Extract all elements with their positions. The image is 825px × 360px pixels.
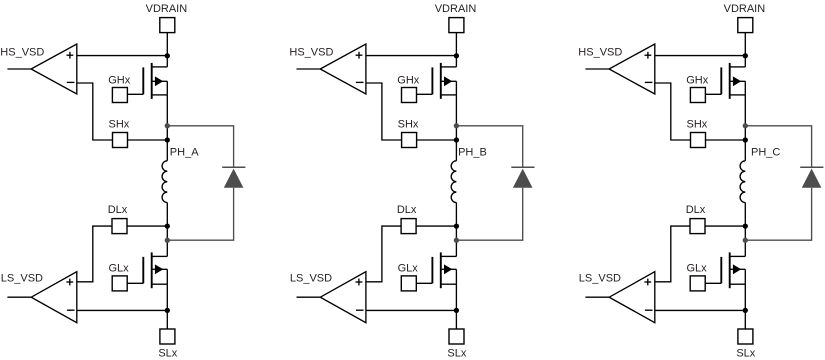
terminal VDRAIN (phase B)	[449, 18, 464, 33]
wire HS_VSD - input to SHx net	[77, 83, 113, 140]
op-amp HS_VSD comparator (phase C)	[609, 44, 655, 94]
transistor: low-side NMOS (phase A)	[143, 252, 167, 288]
wire SL node to SLx terminal	[166, 310, 168, 329]
wire GHx to high-side gate	[705, 93, 721, 95]
wire HS_VSD output	[585, 68, 609, 70]
svg-text:SHx: SHx	[398, 118, 419, 130]
wire VDRAIN terminal to drain node	[166, 33, 168, 56]
terminal GLx	[690, 276, 705, 291]
svg-text:VDRAIN: VDRAIN	[724, 3, 766, 15]
op-amp LS_VSD comparator (phase B)	[320, 272, 366, 323]
svg-text:PH_B: PH_B	[458, 146, 487, 158]
wire low-side source to SL node	[166, 284, 168, 310]
wire low-side source to SL node	[455, 284, 457, 310]
node: SH sense tap (gray)	[165, 123, 170, 128]
wire phase node to inductor	[455, 140, 457, 161]
wire HS_VSD output	[7, 68, 31, 70]
wire diode anode to DL sense tap (gray)	[167, 188, 233, 240]
wire GHx to high-side gate	[127, 93, 143, 95]
wire VDRAIN terminal to drain node	[744, 33, 746, 56]
inductor: motor phase winding (phase C)	[740, 161, 745, 203]
wire GLx to low-side gate	[705, 282, 721, 284]
terminal GLx	[112, 276, 127, 291]
inductor: motor phase winding (phase B)	[451, 161, 456, 203]
wire GLx to low-side gate	[416, 282, 432, 284]
wire diode anode to DL sense tap (gray)	[456, 188, 522, 240]
wire LS_VSD output	[585, 296, 609, 298]
node: SH sense tap (gray)	[454, 123, 459, 128]
node: VDRAIN/drain junction	[743, 53, 748, 58]
wire low-side source to SL node	[744, 284, 746, 310]
svg-text:LS_VSD: LS_VSD	[1, 272, 43, 284]
node: SL junction	[743, 308, 748, 313]
terminal SHx	[402, 133, 417, 148]
wire drain node to HS_VSD + input	[77, 55, 168, 57]
wire SHx to phase node	[706, 139, 746, 141]
wire DLx to DL node	[127, 225, 167, 227]
terminal GLx	[401, 276, 416, 291]
node: VDRAIN/drain junction	[454, 53, 459, 58]
wire GLx to low-side gate	[127, 282, 143, 284]
wire inductor to DL node	[744, 203, 746, 257]
svg-text:PH_A: PH_A	[170, 146, 199, 158]
wire SHx to phase node	[128, 139, 168, 141]
wire diode anode to DL sense tap (gray)	[745, 188, 811, 240]
wire DLx to DL node	[705, 225, 745, 227]
svg-text:GHx: GHx	[108, 74, 131, 86]
node: DL sense tap (gray)	[743, 238, 748, 243]
wire drain node to high-side drain	[744, 56, 746, 67]
wire LS_VSD - input to SL node	[655, 309, 746, 311]
terminal GHx	[402, 88, 417, 103]
node: phase node PH_B	[454, 137, 459, 142]
node: SL junction	[454, 308, 459, 313]
op-amp HS_VSD comparator (phase B)	[320, 44, 366, 94]
svg-text:DLx: DLx	[686, 204, 706, 216]
wire DLx to LS_VSD + input	[366, 226, 401, 282]
phase B half-bridge	[289, 3, 534, 359]
node: DL sense tap (gray)	[454, 238, 459, 243]
wire HS_VSD - input to SHx net	[366, 83, 402, 140]
terminal DLx	[401, 219, 416, 234]
wire HS_VSD - input to SHx net	[655, 83, 691, 140]
terminal SLx	[160, 329, 175, 344]
node: DL sense tap (gray)	[165, 238, 170, 243]
transistor: low-side NMOS (phase C)	[721, 252, 745, 288]
terminal SLx	[738, 329, 753, 344]
svg-text:HS_VSD: HS_VSD	[0, 46, 44, 58]
svg-text:SLx: SLx	[736, 347, 755, 359]
wire SH sense tap to diode cathode (gray)	[745, 126, 811, 168]
op-amp HS_VSD comparator (phase A)	[31, 44, 77, 94]
svg-text:VDRAIN: VDRAIN	[435, 3, 477, 15]
inductor: motor phase winding (phase A)	[162, 161, 167, 203]
svg-text:GLx: GLx	[687, 263, 708, 275]
wire GHx to high-side gate	[417, 93, 433, 95]
wire SL node to SLx terminal	[455, 310, 457, 329]
wire SL node to SLx terminal	[744, 310, 746, 329]
node: SH sense tap (gray)	[743, 123, 748, 128]
node: VDRAIN/drain junction	[165, 53, 170, 58]
wire drain node to HS_VSD + input	[655, 55, 746, 57]
svg-text:PH_C: PH_C	[751, 146, 780, 158]
wire inductor to DL node	[166, 203, 168, 257]
svg-text:LS_VSD: LS_VSD	[290, 272, 332, 284]
terminal GHx	[112, 88, 127, 103]
transistor: high-side NMOS (phase A)	[143, 63, 167, 99]
diode D3 freewheel (gray)	[800, 167, 823, 188]
node: SL junction	[165, 308, 170, 313]
wire SH sense tap to diode cathode (gray)	[456, 126, 522, 168]
wire phase node to inductor	[744, 140, 746, 161]
wire inductor to DL node	[455, 203, 457, 257]
wire high-side source to phase node	[744, 95, 746, 140]
wire LS_VSD - input to SL node	[77, 309, 168, 311]
wire DLx to LS_VSD + input	[77, 226, 112, 282]
wire LS_VSD - input to SL node	[366, 309, 457, 311]
node: DL junction	[454, 223, 459, 228]
node: DL junction	[165, 223, 170, 228]
svg-text:SLx: SLx	[158, 347, 177, 359]
wire DLx to DL node	[416, 225, 456, 227]
svg-text:DLx: DLx	[108, 204, 128, 216]
transistor: high-side NMOS (phase B)	[432, 63, 456, 99]
svg-text:GHx: GHx	[397, 74, 420, 86]
node: DL junction	[743, 223, 748, 228]
svg-text:GLx: GLx	[109, 263, 130, 275]
transistor: high-side NMOS (phase C)	[721, 63, 745, 99]
wire high-side source to phase node	[166, 95, 168, 140]
wire high-side source to phase node	[455, 95, 457, 140]
op-amp LS_VSD comparator (phase A)	[31, 272, 77, 323]
phase C half-bridge	[578, 3, 823, 359]
terminal VDRAIN (phase C)	[738, 18, 753, 33]
transistor: low-side NMOS (phase B)	[432, 252, 456, 288]
node: phase node PH_A	[165, 137, 170, 142]
wire drain node to HS_VSD + input	[366, 55, 457, 57]
svg-text:GLx: GLx	[398, 263, 419, 275]
svg-text:SHx: SHx	[687, 118, 708, 130]
svg-text:HS_VSD: HS_VSD	[289, 46, 333, 58]
terminal VDRAIN (phase A)	[160, 18, 175, 33]
diode D2 freewheel (gray)	[511, 167, 534, 188]
svg-text:DLx: DLx	[397, 204, 417, 216]
wire phase node to inductor	[166, 140, 168, 161]
wire LS_VSD output	[297, 296, 321, 298]
svg-text:GHx: GHx	[686, 74, 709, 86]
wire drain node to high-side drain	[455, 56, 457, 67]
op-amp LS_VSD comparator (phase C)	[609, 272, 655, 323]
svg-text:VDRAIN: VDRAIN	[146, 3, 188, 15]
wire HS_VSD output	[297, 68, 321, 70]
svg-text:SHx: SHx	[109, 118, 130, 130]
wire DLx to LS_VSD + input	[655, 226, 690, 282]
terminal GHx	[690, 88, 705, 103]
terminal SLx	[449, 329, 464, 344]
terminal DLx	[112, 219, 127, 234]
svg-text:SLx: SLx	[447, 347, 466, 359]
wire VDRAIN terminal to drain node	[455, 33, 457, 56]
node: phase node PH_C	[743, 137, 748, 142]
phase A half-bridge	[0, 3, 245, 359]
wire drain node to high-side drain	[166, 56, 168, 67]
svg-text:LS_VSD: LS_VSD	[579, 272, 621, 284]
svg-text:HS_VSD: HS_VSD	[578, 46, 622, 58]
terminal SHx	[691, 133, 706, 148]
wire SH sense tap to diode cathode (gray)	[167, 126, 233, 168]
wire SHx to phase node	[417, 139, 457, 141]
terminal DLx	[690, 219, 705, 234]
diode D1 freewheel (gray)	[222, 167, 245, 188]
terminal SHx	[113, 133, 128, 148]
wire LS_VSD output	[7, 296, 31, 298]
